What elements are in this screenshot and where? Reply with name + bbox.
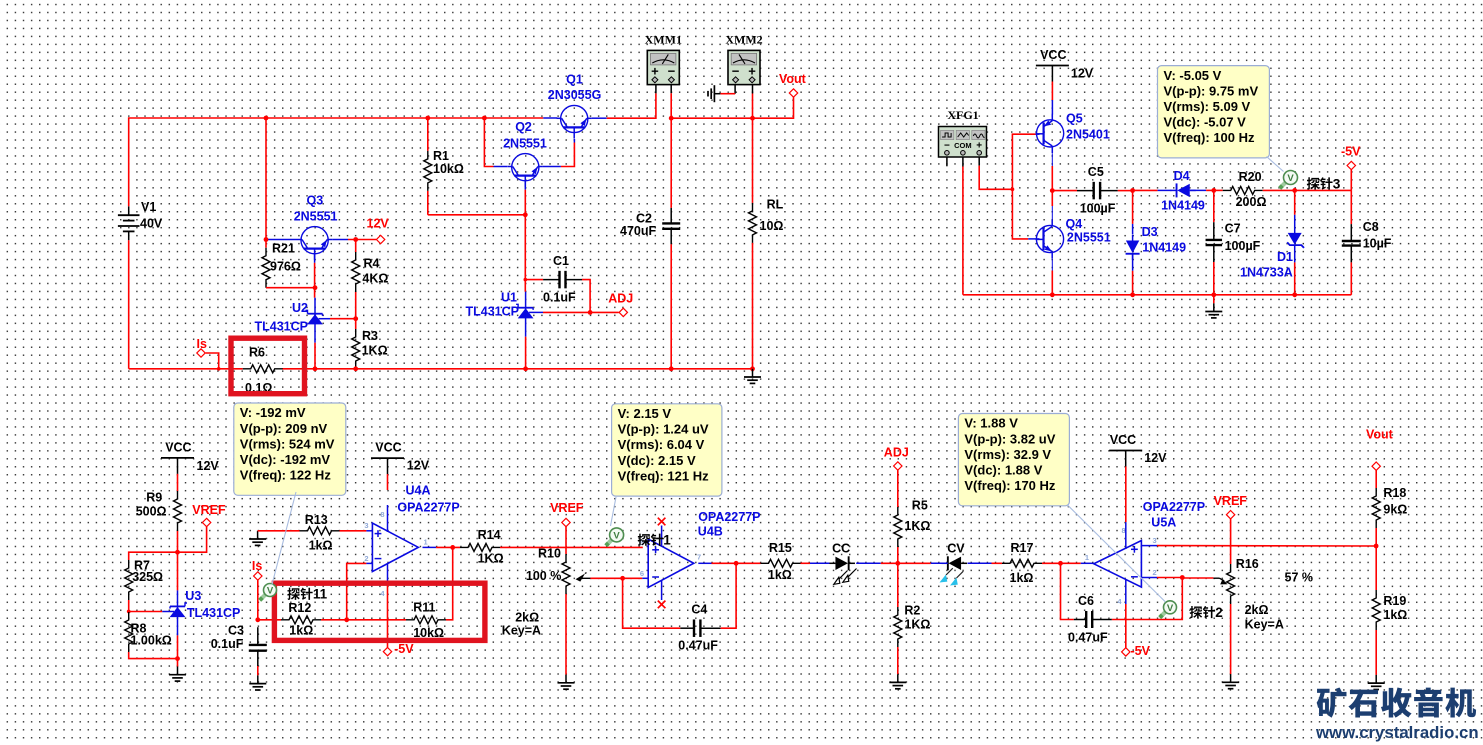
svg-text:R15: R15	[769, 541, 792, 555]
wire	[128, 600, 130, 612]
wire	[1133, 189, 1158, 191]
capacitor C8	[1350, 224, 1352, 241]
svg-text:VCC: VCC	[375, 440, 401, 454]
capacitor C2	[670, 118, 672, 208]
svg-text:V(rms): 5.09 V: V(rms): 5.09 V	[1164, 99, 1251, 114]
wire	[1350, 170, 1352, 191]
svg-text:R18: R18	[1383, 486, 1406, 500]
highlight box R12 R11	[274, 583, 485, 640]
wire	[1125, 580, 1127, 605]
diode CV	[949, 557, 962, 570]
svg-text:2N5401: 2N5401	[1066, 128, 1110, 142]
resistor R6	[243, 365, 283, 373]
resistor R9	[177, 474, 179, 491]
svg-text:12V: 12V	[1144, 451, 1167, 465]
svg-text:V: 2.15 V: V: 2.15 V	[618, 406, 672, 421]
resistor R4	[355, 240, 357, 253]
svg-text:Vout: Vout	[1366, 428, 1394, 442]
wire	[282, 368, 752, 370]
svg-text:9kΩ: 9kΩ	[1383, 503, 1407, 517]
wire	[1051, 271, 1053, 295]
wire	[1118, 190, 1133, 192]
diode D4	[1158, 189, 1172, 191]
wire	[1182, 577, 1213, 579]
wire	[734, 85, 736, 94]
transistor Q1	[561, 105, 588, 132]
svg-text:U4A: U4A	[406, 484, 431, 498]
probe 探针3	[1280, 180, 1288, 188]
svg-text:C5: C5	[1088, 165, 1104, 179]
svg-text:V(freq): 121 Hz: V(freq): 121 Hz	[618, 468, 710, 483]
node	[523, 366, 528, 371]
node	[750, 366, 755, 371]
capacitor C3	[257, 627, 259, 645]
svg-text:U4B: U4B	[698, 524, 723, 538]
svg-text:V(rms): 32.9 V: V(rms): 32.9 V	[964, 447, 1051, 462]
svg-text:C4: C4	[691, 603, 707, 617]
node	[425, 116, 430, 121]
svg-text:Vout: Vout	[779, 72, 807, 86]
no-connect X	[658, 518, 666, 526]
wire	[129, 652, 178, 659]
resistor R7	[125, 560, 133, 600]
svg-text:Q5: Q5	[1066, 112, 1083, 126]
wire	[543, 166, 561, 168]
wire	[1051, 100, 1053, 115]
wire	[897, 547, 899, 563]
wire	[257, 580, 259, 620]
led arrows	[834, 569, 857, 585]
node	[1211, 188, 1216, 193]
svg-text:CC: CC	[832, 542, 850, 556]
op-amp U4A	[372, 523, 418, 572]
wire	[661, 526, 663, 547]
wire	[129, 118, 544, 206]
wire	[1012, 134, 1035, 239]
diode D3	[1132, 224, 1134, 234]
node	[264, 237, 269, 242]
svg-text:2N3055G: 2N3055G	[548, 88, 602, 102]
wire	[1350, 190, 1352, 224]
no-connect X	[658, 601, 666, 609]
wire	[561, 143, 575, 167]
net Vout	[1372, 462, 1380, 470]
highlight box R6	[231, 338, 305, 394]
svg-text:-5V: -5V	[1341, 144, 1361, 158]
wire	[387, 505, 389, 532]
node	[734, 561, 739, 566]
transistor Q2	[512, 154, 539, 181]
wire U2 ref	[319, 318, 330, 320]
resistor R19	[1372, 590, 1380, 630]
svg-text:1.00kΩ: 1.00kΩ	[131, 634, 172, 648]
multimeter XMM2	[728, 50, 760, 84]
svg-text:1KΩ: 1KΩ	[478, 552, 504, 566]
wire	[573, 139, 575, 143]
wire	[314, 343, 316, 369]
wire	[752, 85, 754, 94]
node	[1050, 292, 1055, 297]
net Is	[197, 349, 205, 357]
net VREF	[1226, 511, 1234, 519]
ground	[257, 531, 259, 539]
node	[344, 617, 349, 622]
svg-text:100 %: 100 %	[526, 569, 561, 583]
svg-text:2: 2	[1153, 568, 1157, 577]
svg-text:ADJ: ADJ	[884, 446, 909, 460]
svg-text:VCC: VCC	[1040, 48, 1066, 62]
wire	[1081, 562, 1094, 564]
wire	[332, 239, 348, 241]
svg-text:1kΩ: 1kΩ	[768, 568, 792, 582]
wire	[962, 157, 964, 167]
svg-text:1kΩ: 1kΩ	[309, 538, 333, 552]
svg-text:V(dc): -192 mV: V(dc): -192 mV	[240, 452, 331, 467]
svg-text:3: 3	[364, 521, 368, 530]
shunt reference U2	[308, 313, 323, 315]
svg-text:2N5551: 2N5551	[503, 137, 547, 151]
resistor R13	[300, 527, 340, 535]
svg-text:1N4733A: 1N4733A	[1240, 266, 1293, 280]
wire	[698, 562, 711, 564]
wire	[129, 368, 243, 370]
svg-text:1KΩ: 1KΩ	[904, 519, 930, 533]
svg-text:D3: D3	[1142, 225, 1158, 239]
svg-text:976Ω: 976Ω	[270, 260, 301, 274]
wire	[257, 666, 259, 675]
svg-text:Is: Is	[252, 559, 262, 573]
svg-text:R9: R9	[146, 491, 162, 505]
svg-text:V(dc): 1.88 V: V(dc): 1.88 V	[964, 463, 1042, 478]
svg-text:V(rms): 6.04 V: V(rms): 6.04 V	[618, 437, 705, 452]
svg-text:TL431CP: TL431CP	[255, 319, 309, 333]
svg-text:V(p-p): 209 nV: V(p-p): 209 nV	[240, 421, 328, 436]
net Vout	[789, 89, 797, 97]
svg-text:1kΩ: 1kΩ	[1383, 608, 1407, 622]
wire	[963, 294, 1351, 296]
node	[669, 116, 674, 121]
svg-text:V: -5.05 V: V: -5.05 V	[1164, 68, 1222, 83]
svg-text:3: 3	[1333, 177, 1341, 192]
svg-text:D4: D4	[1174, 169, 1190, 183]
svg-text:8: 8	[380, 510, 384, 519]
wire	[582, 280, 590, 313]
resistor R18	[1372, 488, 1380, 528]
label 探针1	[638, 534, 663, 546]
wire	[590, 577, 622, 579]
ground	[752, 369, 754, 377]
svg-text:200Ω: 200Ω	[1236, 195, 1267, 209]
net ADJ	[894, 462, 902, 470]
svg-text:V: 1.88 V: V: 1.88 V	[964, 416, 1018, 431]
svg-text:V1: V1	[141, 200, 156, 214]
svg-text:V(p-p): 3.82 uV: V(p-p): 3.82 uV	[964, 431, 1055, 446]
wire	[1157, 577, 1182, 579]
wire	[1350, 262, 1352, 294]
potentiometer R16	[1227, 564, 1235, 604]
ground	[1230, 674, 1232, 682]
node	[313, 285, 318, 290]
svg-text:R5: R5	[912, 499, 928, 513]
svg-text:1kΩ: 1kΩ	[289, 624, 313, 638]
wire	[1132, 271, 1134, 295]
svg-text:1N4149: 1N4149	[1142, 241, 1186, 255]
node	[1374, 544, 1379, 549]
svg-text:U5A: U5A	[1151, 515, 1176, 529]
svg-text:R3: R3	[362, 329, 378, 343]
svg-text:R19: R19	[1383, 594, 1406, 608]
wire	[387, 564, 389, 581]
svg-text:12V: 12V	[197, 459, 220, 473]
svg-text:11: 11	[313, 587, 328, 602]
svg-text:+: +	[976, 140, 982, 151]
wire	[655, 85, 657, 94]
wire	[897, 647, 899, 674]
svg-text:VREF: VREF	[192, 503, 226, 517]
svg-text:XFG1: XFG1	[947, 108, 978, 122]
op-amp U5A	[1094, 541, 1142, 588]
wire	[500, 546, 643, 548]
svg-text:C6: C6	[1078, 594, 1094, 608]
resistor R17	[1002, 559, 1042, 567]
node	[1130, 188, 1135, 193]
svg-text:12V: 12V	[1071, 66, 1094, 80]
svg-text:1kΩ: 1kΩ	[1010, 571, 1034, 585]
net Is	[254, 572, 262, 580]
resistor R21	[265, 240, 267, 248]
svg-text:TL431CP: TL431CP	[466, 304, 520, 318]
svg-text:U3: U3	[185, 589, 201, 603]
svg-text:1: 1	[424, 538, 428, 547]
wire	[1051, 206, 1053, 219]
power VCC	[371, 457, 404, 459]
wire	[1125, 522, 1127, 549]
svg-text:VREF: VREF	[1214, 494, 1248, 508]
wire	[387, 474, 389, 490]
wire	[177, 552, 179, 590]
node	[353, 237, 358, 242]
wire	[623, 577, 643, 579]
resistor RL	[752, 118, 754, 203]
transistor Q3	[301, 227, 328, 254]
svg-text:TL431CP: TL431CP	[187, 606, 241, 620]
svg-text:V(rms): 524 mV: V(rms): 524 mV	[240, 436, 335, 451]
shunt reference U3	[170, 605, 185, 607]
svg-text:2kΩ: 2kΩ	[1245, 603, 1269, 617]
power VCC	[1036, 65, 1069, 67]
wire	[962, 167, 964, 295]
wire	[712, 562, 737, 564]
svg-text:XMM2: XMM2	[725, 33, 762, 47]
svg-text:www.crystalradio.cn: www.crystalradio.cn	[1315, 723, 1479, 742]
svg-text:1N4149: 1N4149	[1161, 199, 1205, 213]
node	[353, 316, 358, 321]
svg-text:VREF: VREF	[550, 501, 584, 515]
wire	[314, 263, 316, 298]
wire	[177, 659, 179, 667]
op-amp U4B	[648, 539, 694, 587]
node	[264, 116, 269, 121]
node	[127, 610, 131, 614]
svg-text:VCC: VCC	[1110, 433, 1136, 447]
svg-text:V(freq): 122 Hz: V(freq): 122 Hz	[240, 468, 332, 483]
svg-text:1KΩ: 1KΩ	[904, 618, 930, 632]
capacitor C5	[1052, 190, 1077, 192]
svg-text:12V: 12V	[367, 217, 390, 231]
wire	[1375, 546, 1377, 590]
svg-text:ADJ: ADJ	[608, 291, 633, 305]
wire	[670, 85, 672, 94]
ground	[714, 93, 720, 95]
net 12V	[376, 235, 384, 243]
node	[1292, 292, 1297, 297]
svg-text:Key=A: Key=A	[1245, 618, 1284, 632]
svg-text:470uF: 470uF	[620, 224, 656, 238]
node	[175, 550, 180, 555]
wire	[428, 214, 526, 216]
wire	[1157, 545, 1376, 547]
ground	[897, 674, 899, 682]
ground	[1375, 675, 1377, 683]
wire	[1051, 166, 1053, 206]
svg-text:V(freq): 100 Hz: V(freq): 100 Hz	[1164, 130, 1256, 145]
wire	[856, 562, 881, 564]
svg-text:Q4: Q4	[1066, 217, 1083, 231]
node	[1050, 188, 1055, 193]
probe 探针2	[1160, 609, 1168, 617]
wire	[1263, 189, 1295, 191]
node	[588, 310, 593, 315]
battery V1	[128, 206, 130, 215]
wire	[1141, 545, 1157, 547]
svg-text:0.47uF: 0.47uF	[678, 638, 718, 652]
wire	[978, 157, 980, 166]
svg-text:VCC: VCC	[165, 440, 191, 454]
svg-text:325Ω: 325Ω	[132, 570, 163, 584]
label 探针2	[1190, 606, 1215, 618]
measurement box probe11	[234, 403, 346, 495]
svg-text:2N5551: 2N5551	[294, 210, 338, 224]
wire	[810, 562, 830, 564]
net -5V	[1347, 161, 1355, 169]
resistor R11	[347, 619, 406, 621]
wire	[1061, 562, 1081, 564]
svg-text:R12: R12	[288, 601, 311, 615]
wire	[340, 530, 367, 532]
wire	[1036, 133, 1040, 135]
svg-text:R16: R16	[1236, 557, 1259, 571]
function generator XFG1	[939, 127, 987, 158]
svg-text:0.1uF: 0.1uF	[543, 291, 576, 305]
wire	[177, 635, 179, 658]
wire	[1213, 295, 1215, 304]
shunt reference U1	[518, 307, 533, 309]
svg-text:XMM1: XMM1	[645, 33, 682, 47]
svg-text:0.47uF: 0.47uF	[1068, 631, 1108, 645]
svg-text:−: −	[944, 140, 950, 151]
wire	[1125, 604, 1127, 648]
pointer line	[611, 497, 617, 526]
wire	[1125, 467, 1127, 523]
wire	[753, 97, 794, 118]
transistor Q4	[1036, 225, 1063, 252]
svg-text:7: 7	[697, 553, 701, 562]
node	[450, 545, 455, 550]
svg-text:1KΩ: 1KΩ	[362, 344, 388, 358]
wire	[1295, 189, 1352, 191]
wire	[1294, 190, 1296, 214]
wire	[979, 166, 1012, 190]
svg-text:C8: C8	[1363, 220, 1379, 234]
node	[313, 366, 318, 371]
svg-text:-5V: -5V	[394, 642, 414, 656]
svg-text:R20: R20	[1239, 170, 1262, 184]
wire	[721, 563, 737, 628]
svg-text:Key=A: Key=A	[502, 623, 541, 637]
capacitor C6	[1074, 619, 1087, 621]
wire	[129, 552, 178, 560]
svg-text:R4: R4	[364, 256, 380, 270]
resistor R15	[736, 562, 760, 564]
svg-text:CV: CV	[947, 542, 965, 556]
wire	[387, 581, 389, 647]
svg-text:C7: C7	[1225, 222, 1241, 236]
node	[353, 366, 358, 371]
svg-text:R1: R1	[433, 149, 449, 163]
ground	[257, 675, 259, 683]
svg-text:R21: R21	[272, 241, 295, 255]
svg-text:V(p-p): 9.75 mV: V(p-p): 9.75 mV	[1164, 83, 1259, 98]
wire	[1051, 82, 1053, 101]
node	[175, 656, 180, 661]
svg-text:500Ω: 500Ω	[136, 505, 167, 519]
svg-text:57 %: 57 %	[1285, 570, 1314, 584]
measurement box probe3	[1158, 66, 1270, 158]
wire U1 ref	[529, 311, 543, 313]
wire	[671, 117, 752, 119]
transistor Q5	[1037, 120, 1064, 147]
wire	[607, 93, 656, 118]
wire	[1141, 577, 1157, 579]
svg-text:40V: 40V	[140, 217, 163, 231]
svg-text:100µF: 100µF	[1080, 202, 1116, 216]
resistor R20	[1214, 189, 1223, 191]
svg-text:12V: 12V	[407, 459, 430, 473]
svg-text:V: -192 mV: V: -192 mV	[240, 405, 306, 420]
wire	[524, 181, 526, 190]
wire	[565, 527, 567, 554]
svg-text:8: 8	[1122, 526, 1126, 535]
node	[1058, 561, 1063, 566]
wire	[881, 562, 898, 564]
diode D1	[1294, 215, 1296, 234]
capacitor C1	[525, 279, 543, 281]
wire	[1051, 259, 1053, 271]
svg-text:V: V	[267, 586, 274, 597]
svg-text:V(dc): -5.07 V: V(dc): -5.07 V	[1164, 115, 1247, 130]
wire	[321, 619, 347, 621]
wire	[1375, 630, 1377, 675]
wire	[661, 580, 663, 600]
wire	[623, 578, 681, 628]
diode CC	[835, 557, 848, 570]
svg-text:U2: U2	[292, 301, 308, 315]
svg-text:OPA2277P: OPA2277P	[698, 510, 760, 524]
wire	[423, 546, 437, 548]
net -5V	[383, 647, 391, 655]
wire	[720, 93, 735, 95]
power VCC	[161, 457, 194, 459]
